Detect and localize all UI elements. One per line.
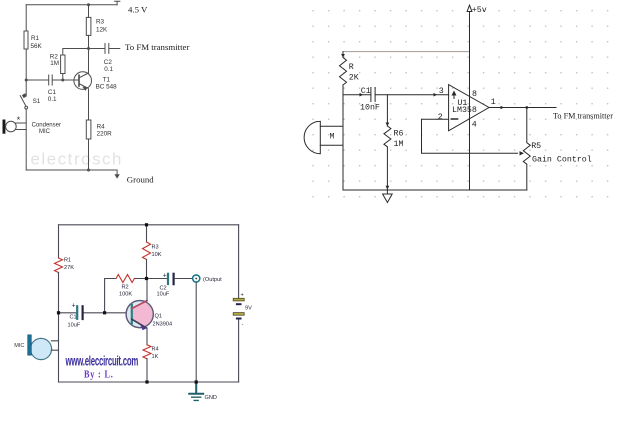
- wire base net: [59, 312, 132, 314]
- resistor R4 1K (red zigzag): [143, 345, 151, 359]
- junction output R5: [525, 106, 528, 109]
- wire bottom rail: [59, 381, 239, 383]
- wire collector net: [63, 5, 105, 55]
- lead arrow R6 top: [386, 123, 390, 127]
- junction arrow pin3: [434, 93, 438, 97]
- wire C2 lead: [147, 278, 167, 280]
- wire top rail: [26, 4, 117, 6]
- transistor Q1 base bar: [131, 305, 133, 324]
- resistor R4: [86, 120, 91, 139]
- condenser mic: [3, 120, 5, 133]
- wire R2 lower lead: [62, 74, 64, 81]
- wire emitter vertical: [146, 328, 148, 345]
- battery plate long 1: [233, 298, 244, 301]
- wire C2 to output: [175, 278, 192, 280]
- svg-text:10nF: 10nF: [360, 104, 380, 113]
- svg-text:2K: 2K: [349, 74, 359, 83]
- junction arrow output: [501, 106, 505, 110]
- svg-text:R3: R3: [152, 245, 159, 251]
- wire battery bottom lead: [238, 320, 240, 382]
- svg-text:R1: R1: [31, 35, 40, 42]
- svg-text:R: R: [349, 63, 354, 72]
- transistor T1: [74, 72, 92, 90]
- junction bottom rail: [87, 169, 90, 172]
- lead arrow R top: [341, 54, 345, 58]
- resistor R2: [61, 55, 65, 74]
- svg-text:C2: C2: [104, 59, 113, 66]
- svg-text:R4: R4: [97, 123, 106, 130]
- svg-text:+5v: +5v: [472, 6, 487, 15]
- capacitor C2: [105, 44, 120, 54]
- resistor R 2K: [340, 52, 347, 95]
- svg-text:GND: GND: [205, 395, 217, 401]
- svg-text:*: *: [17, 115, 21, 126]
- svg-text:+: +: [163, 273, 167, 280]
- resistor R6: [384, 95, 391, 190]
- mic bar: [28, 335, 32, 355]
- switch S1: [23, 94, 27, 98]
- wire R3 top lead: [146, 225, 148, 242]
- wire R4 bottom lead: [146, 359, 148, 382]
- svg-text:3: 3: [439, 87, 444, 96]
- capacitor C1: [371, 88, 375, 102]
- svg-text:S1: S1: [33, 98, 41, 105]
- transistor Q1 pink sector: [133, 302, 153, 327]
- svg-text:M: M: [330, 133, 335, 142]
- ground terminal arrow: [115, 175, 119, 178]
- ground symbol: [383, 190, 393, 203]
- junction collector: [87, 47, 90, 50]
- junction base-R2: [61, 79, 64, 82]
- svg-text:10K: 10K: [152, 252, 162, 258]
- svg-text:C1: C1: [48, 89, 57, 96]
- svg-text:R6: R6: [394, 130, 404, 139]
- battery plate long 2: [233, 313, 244, 316]
- wire R2 leads: [105, 279, 147, 313]
- wire left rail: [342, 95, 344, 190]
- svg-text:T1: T1: [103, 76, 111, 83]
- wire +5v vertical: [469, 12, 471, 191]
- wire base net: [26, 79, 79, 81]
- power terminal 4.5V tick: [115, 1, 120, 5]
- svg-text:0.1: 0.1: [104, 66, 113, 73]
- svg-text:Condenser: Condenser: [32, 122, 61, 128]
- svg-text:2N3904: 2N3904: [153, 322, 173, 328]
- svg-text:Q1: Q1: [155, 314, 162, 320]
- svg-text:Ground: Ground: [127, 175, 154, 185]
- svg-text:C1: C1: [70, 315, 77, 321]
- svg-text:Gain Control: Gain Control: [532, 155, 592, 165]
- svg-text:To FM transmitter: To FM transmitter: [553, 111, 613, 120]
- lead arrow R6 bottom: [386, 186, 390, 190]
- svg-text:By : L.: By : L.: [84, 369, 114, 380]
- svg-text:10uF: 10uF: [157, 292, 170, 298]
- wire collector vertical: [146, 279, 148, 301]
- wire left rail mid: [58, 273, 60, 383]
- junction top: [87, 3, 90, 6]
- wire input net: [343, 94, 449, 96]
- wire emitter vertical: [88, 89, 90, 120]
- feedback wire pin2: [422, 119, 518, 153]
- svg-text:1K: 1K: [152, 354, 159, 360]
- output connector: [193, 275, 200, 282]
- svg-text:1: 1: [491, 98, 496, 107]
- op-amp U1 triangle: [449, 85, 489, 131]
- mic body: [30, 338, 51, 359]
- op-amp minus input bar: [451, 118, 457, 120]
- svg-text:(Output: (Output: [203, 277, 222, 283]
- svg-text:BC 548: BC 548: [96, 83, 118, 90]
- resistor R1 27K (red zigzag): [55, 258, 63, 273]
- output wire: [489, 107, 556, 109]
- capacitor C2 plates: [167, 274, 169, 284]
- svg-text:1M: 1M: [394, 140, 404, 149]
- transistor Q1 circle: [126, 301, 153, 328]
- svg-text:R4: R4: [152, 347, 159, 353]
- emitter arrowhead: [140, 325, 146, 330]
- svg-text:8: 8: [472, 90, 477, 99]
- wire R3 bottom lead: [146, 260, 148, 279]
- wire battery top lead: [238, 225, 240, 298]
- svg-text:27K: 27K: [64, 265, 74, 271]
- resistor R3: [86, 17, 91, 35]
- resistor R5: [523, 108, 530, 191]
- svg-text:4.5 V: 4.5 V: [128, 4, 148, 14]
- resistor R2 100K (red zigzag horizontal): [116, 275, 134, 283]
- svg-text:+: +: [241, 293, 244, 299]
- wire top supply (gray): [343, 51, 470, 53]
- svg-text:100K: 100K: [119, 292, 132, 298]
- svg-text:LM358: LM358: [452, 106, 477, 115]
- wiper arrow R5: [520, 151, 525, 155]
- battery plate short 2: [236, 318, 242, 320]
- capacitor C1: [49, 75, 53, 85]
- wire left rail top: [58, 225, 60, 258]
- wire output down to ground rail: [195, 282, 197, 382]
- svg-text:R5: R5: [531, 142, 541, 151]
- svg-text:220R: 220R: [97, 131, 113, 138]
- battery plate short 1: [236, 303, 242, 305]
- capacitor C1 plates: [76, 306, 78, 319]
- mic stubs: [51, 341, 58, 350]
- microphone M: [304, 121, 320, 153]
- resistor R3 10K (red zigzag): [143, 242, 151, 260]
- junction dots: [145, 223, 148, 226]
- svg-text:To FM transmitter: To FM transmitter: [125, 42, 189, 52]
- svg-text:9V: 9V: [245, 306, 252, 312]
- junction base-left: [25, 79, 28, 82]
- ground symbol GND: [189, 382, 203, 394]
- svg-text:electrosch: electrosch: [31, 150, 123, 169]
- svg-text:MIC: MIC: [14, 343, 24, 349]
- wire R4 to ground rail: [88, 139, 90, 170]
- svg-text:R2: R2: [122, 285, 129, 291]
- transistor Q1 collector diag: [132, 301, 147, 309]
- junction arrow input: [360, 93, 364, 97]
- svg-text:1M: 1M: [50, 60, 59, 67]
- transistor Q1 emitter diag: [132, 319, 146, 327]
- wire left rail upper: [25, 5, 27, 96]
- svg-text:www.eleccircuit.com: www.eleccircuit.com: [65, 354, 139, 369]
- wire bottom rail: [26, 170, 117, 176]
- svg-text:C1: C1: [361, 87, 371, 96]
- svg-text:R3: R3: [96, 18, 105, 25]
- svg-text:2: 2: [438, 113, 443, 122]
- svg-text:10uF: 10uF: [68, 323, 81, 329]
- svg-text:MIC: MIC: [39, 129, 51, 135]
- wire top rail: [59, 224, 239, 226]
- svg-text:+: +: [72, 303, 76, 310]
- svg-text:0.1: 0.1: [48, 96, 57, 103]
- svg-text:4: 4: [472, 121, 477, 130]
- svg-text:-: -: [242, 322, 244, 328]
- power terminal +5v arrow: [467, 5, 472, 11]
- op-amp plus input arrow: [452, 92, 455, 99]
- svg-text:12K: 12K: [96, 26, 108, 33]
- svg-text:R1: R1: [64, 258, 71, 264]
- wire collector vertical: [88, 49, 90, 73]
- svg-text:56K: 56K: [31, 43, 43, 50]
- wire bottom rail: [343, 189, 527, 191]
- wire left rail mid: [25, 109, 27, 170]
- transistor Q1 outline: [126, 301, 153, 328]
- resistor R1: [24, 31, 28, 49]
